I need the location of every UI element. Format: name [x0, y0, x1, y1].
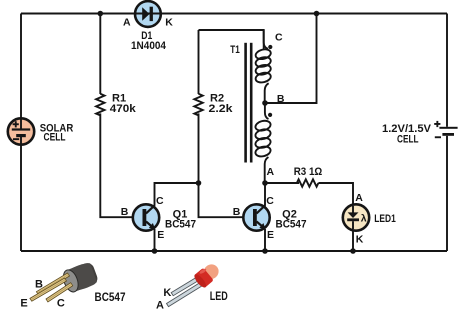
transistor Q2 symbol [253, 205, 266, 229]
svg-text:A: A [355, 192, 363, 204]
wire Q1 emitter [154, 229, 156, 251]
node Q1 emitter on bottom wire [152, 248, 158, 254]
svg-text:T1: T1 [230, 44, 240, 56]
svg-text:BC547: BC547 [165, 218, 196, 230]
label SOLAR CELL [40, 122, 74, 143]
svg-text:E: E [267, 229, 274, 241]
wire Q1 collector [155, 183, 199, 206]
wire left: top corner down to solar cell [20, 14, 22, 119]
svg-text:A: A [156, 299, 164, 311]
polarity dot (primary) [268, 45, 272, 49]
wire left lower: solar cell to bottom corner [20, 145, 22, 251]
battery B1 symbol [434, 121, 457, 138]
wire right lower: battery to bottom corner [446, 136, 448, 251]
svg-text:A: A [267, 166, 275, 178]
BC547 package photo [30, 261, 100, 302]
node LED1 cathode on bottom wire [350, 248, 356, 254]
node: top junction R1 [98, 11, 104, 17]
LED1 symbol [347, 206, 367, 229]
svg-text:2.2k: 2.2k [209, 103, 234, 115]
svg-text:CELL: CELL [44, 132, 66, 144]
node Q2 emitter on bottom wire [262, 248, 268, 254]
svg-text:LED1: LED1 [374, 213, 396, 225]
resistor R2 [194, 30, 242, 217]
svg-text:R3 1Ω: R3 1Ω [294, 166, 323, 178]
svg-text:A: A [123, 16, 131, 28]
svg-text:B: B [277, 93, 285, 105]
node: junction R2 / Q1 collector [196, 180, 202, 186]
svg-text:470k: 470k [110, 103, 137, 115]
LED photo [167, 261, 223, 307]
wire Q2 emitter [264, 229, 266, 251]
svg-text:E: E [157, 229, 164, 241]
LED1 circle [343, 204, 369, 230]
solar cell PV1 [8, 118, 34, 144]
svg-text:K: K [356, 234, 364, 246]
svg-text:C: C [156, 195, 164, 207]
transformer T1 secondary winding (B-A) [254, 103, 271, 183]
svg-text:B: B [233, 206, 241, 218]
wire bottom [21, 250, 447, 252]
polarity dot (secondary) [268, 113, 272, 117]
svg-text:E: E [20, 298, 27, 310]
svg-text:K: K [165, 16, 173, 28]
svg-text:BC547: BC547 [95, 290, 126, 304]
wire right upper: top corner to battery [446, 14, 448, 127]
resistor R3 wire [265, 182, 299, 184]
transistor Q2 circle [243, 204, 269, 230]
wire: C terminal top link to R2 [199, 30, 264, 50]
svg-text:C: C [266, 195, 274, 207]
node B junction [262, 100, 268, 106]
resistor R3 zigzag [297, 179, 319, 186]
svg-text:LED: LED [210, 289, 228, 303]
svg-text:B: B [121, 206, 129, 218]
svg-text:B: B [35, 279, 43, 291]
transformer T1 core [244, 43, 252, 163]
svg-text:C: C [57, 298, 65, 310]
svg-text:λ: λ [361, 212, 367, 224]
wire LED1 cathode to bottom [352, 231, 354, 251]
wire R3 to LED1 [318, 183, 353, 204]
transformer T1 primary winding (C-B) [255, 30, 272, 103]
svg-text:CELL: CELL [397, 133, 419, 145]
svg-text:BC547: BC547 [276, 218, 307, 230]
wire Q2 collector [264, 183, 266, 206]
svg-text:K: K [163, 287, 171, 299]
svg-text:1N4004: 1N4004 [131, 40, 167, 52]
transistor Q1 symbol [143, 205, 156, 229]
resistor R1 [96, 14, 133, 218]
diode D1 symbol [142, 7, 153, 21]
wire: B terminal to top-wire riser [265, 14, 317, 104]
node A junction [262, 180, 268, 186]
wire top: left corner to right corner through D1 [21, 13, 447, 15]
svg-text:C: C [275, 31, 283, 43]
node: top junction transformer feed [314, 11, 320, 17]
diode D1 circle [135, 1, 161, 27]
transistor Q1 circle [133, 204, 159, 230]
